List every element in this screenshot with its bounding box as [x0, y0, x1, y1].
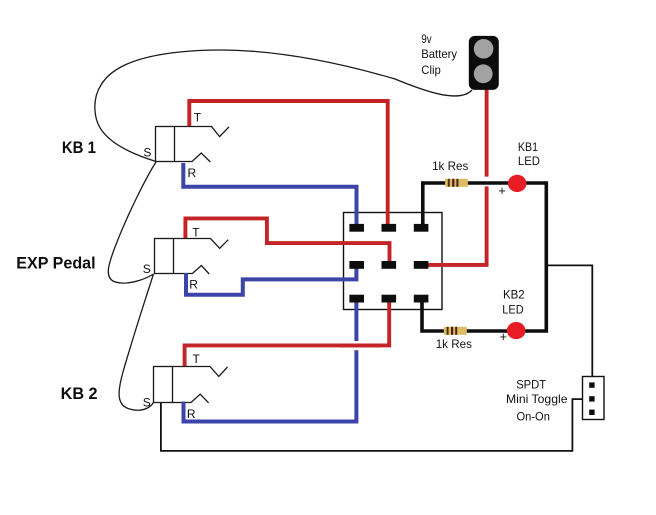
jack J1 (KB 1) body and contacts — [156, 127, 230, 163]
svg-text:Mini Toggle: Mini Toggle — [506, 392, 568, 406]
wire: black sleeve bus arc from KB1 S to battery clip — [95, 50, 472, 161]
svg-text:+: + — [498, 184, 505, 198]
svg-text:T: T — [194, 111, 202, 125]
svg-text:T: T — [193, 352, 201, 366]
wire: red KB1 tip to switch top-middle pad — [189, 101, 387, 227]
svg-text:S: S — [143, 146, 151, 160]
svg-text:EXP Pedal: EXP Pedal — [16, 255, 95, 273]
svg-text:T: T — [192, 226, 200, 240]
wire: red KB2 tip horizontal drawn over blue crossover — [340, 343, 380, 347]
wire: blue KB2 ring to switch bottom-left pad (with crossover gap at red wire) — [184, 350, 357, 421]
wire: black sleeve curve KB1 S to EXP Pedal S — [108, 162, 156, 283]
jack J3 (KB 2) body and contacts — [154, 367, 228, 403]
SPDT toggle pins — [589, 382, 594, 415]
svg-text:R: R — [188, 166, 197, 180]
battery clip bottom snap — [474, 64, 493, 83]
battery clip body — [469, 36, 499, 90]
wire: thin black from LED bus junction right and down to SPDT toggle top pin — [546, 265, 592, 384]
svg-text:1k Res: 1k Res — [432, 159, 468, 173]
svg-text:Clip: Clip — [421, 63, 441, 77]
svg-text:On-On: On-On — [517, 410, 550, 424]
switch pads: 3x3 solder lugs — [349, 224, 428, 303]
resistor R2 (1k) body with bands — [444, 327, 467, 335]
wire: blue KB1 ring to switch top-left pad — [183, 163, 356, 227]
svg-text:KB 1: KB 1 — [62, 138, 96, 157]
3PDT switch box outline — [344, 213, 443, 310]
svg-text:+: + — [500, 330, 507, 344]
svg-text:KB2: KB2 — [503, 288, 525, 302]
wire: thin black KB2 S down and right to SPDT toggle middle pin — [161, 399, 590, 451]
battery clip top snap — [474, 39, 494, 59]
jack J2 (EXP Pedal) body and contacts — [155, 239, 229, 275]
svg-text:LED: LED — [502, 302, 524, 316]
svg-text:R: R — [189, 278, 198, 292]
svg-text:SPDT: SPDT — [516, 377, 547, 391]
LED2 (KB2 LED) — [507, 322, 526, 339]
wire: blue EXP Pedal ring to switch middle-left pad — [186, 265, 356, 295]
wire: red battery + down to switch middle-right pad (crossover gap at black LED wire) — [485, 88, 489, 177]
svg-text:KB1: KB1 — [518, 140, 538, 154]
SPDT toggle switch box — [583, 377, 605, 420]
svg-text:Battery: Battery — [421, 47, 457, 61]
wire: red KB2 tip to switch bottom-middle pad — [185, 298, 390, 367]
svg-text:LED: LED — [518, 154, 540, 168]
svg-text:S: S — [143, 395, 151, 409]
svg-text:1k Res: 1k Res — [436, 337, 472, 351]
svg-text:R: R — [187, 407, 196, 421]
wire: black sleeve curve EXP Pedal S to KB2 S — [119, 274, 153, 410]
svg-text:9v: 9v — [421, 32, 431, 46]
LED1 (KB1 LED) — [508, 175, 527, 192]
svg-text:KB 2: KB 2 — [61, 384, 98, 403]
wire: thick black LED loop (switch top-right pad, R1, LED1, down, LED2, R2, switch bottom-right pad) — [422, 183, 546, 331]
svg-text:S: S — [143, 262, 151, 276]
resistor R1 (1k) body with bands — [445, 179, 468, 187]
wire: red EXP Pedal tip to switch middle-middle pad — [185, 218, 389, 264]
